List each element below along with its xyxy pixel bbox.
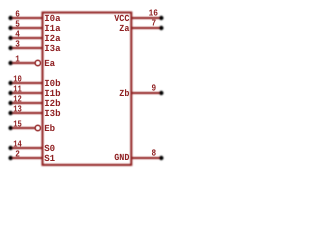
svg-text:Eb: Eb [44, 123, 55, 134]
svg-text:13: 13 [13, 103, 22, 114]
svg-text:7: 7 [152, 18, 157, 29]
svg-text:Ea: Ea [44, 58, 55, 69]
svg-text:I3a: I3a [44, 43, 61, 54]
svg-text:GND: GND [114, 152, 130, 163]
svg-text:9: 9 [152, 83, 157, 94]
svg-text:Za: Za [119, 23, 129, 34]
svg-text:S1: S1 [44, 153, 55, 164]
svg-text:Zb: Zb [119, 88, 129, 99]
svg-text:1: 1 [15, 53, 20, 64]
svg-text:2: 2 [15, 148, 20, 159]
svg-text:8: 8 [152, 148, 157, 159]
svg-text:3: 3 [15, 38, 20, 49]
svg-text:15: 15 [13, 118, 22, 129]
svg-text:I3b: I3b [44, 108, 61, 119]
